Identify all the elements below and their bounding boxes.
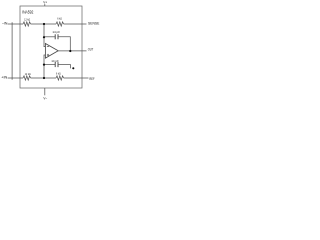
wire R2 to SENSE pin (64, 23, 87, 25)
wire node A to R2 (44, 23, 56, 25)
node D junction dot (43, 77, 45, 79)
svg-text:+IN: +IN (1, 76, 8, 80)
op-amp A1 triangle (45, 44, 58, 59)
power pin V+ lead (44, 4, 46, 6)
node C junction dot (69, 50, 71, 52)
wire C1 to node C on output (58, 37, 70, 51)
svg-text:REF: REF (89, 77, 94, 81)
svg-text:6 kΩ: 6 kΩ (57, 17, 62, 21)
capacitor C2 plate right (57, 62, 59, 67)
capacitor C1 plate left (54, 34, 56, 39)
svg-text:6 kΩ: 6 kΩ (56, 72, 61, 76)
node F junction dot near REF branch (72, 67, 74, 69)
wire R4 to REF pin (64, 77, 89, 79)
wire joining -IN and +IN leads (vertical) (11, 22, 13, 79)
svg-text:–IN: –IN (2, 22, 8, 26)
IC boundary box U1 (20, 6, 82, 88)
svg-text:12 kΩ: 12 kΩ (25, 72, 31, 76)
capacitor C2 plate left (54, 62, 56, 67)
svg-text:14 pF: 14 pF (51, 59, 59, 63)
resistor R1 12 kOhm zigzag (23, 22, 31, 26)
resistor R3 12 kOhm zigzag (23, 76, 31, 80)
svg-text:14 pF: 14 pF (52, 30, 60, 34)
wire node E to capacitor C2 (44, 64, 55, 66)
power pin V- lead (44, 88, 46, 95)
wire +IN lead (8, 77, 23, 79)
wire op-amp output to OUT pin (58, 50, 87, 52)
wire node D up to op-amp non-inverting input (44, 55, 45, 78)
svg-text:12 kΩ: 12 kΩ (24, 18, 30, 22)
op-amp inverting input minus sign (47, 46, 49, 48)
wire C2 down stub (58, 65, 71, 69)
svg-text:INA592: INA592 (22, 10, 34, 15)
svg-text:OUT: OUT (88, 48, 94, 52)
wire node B to capacitor C1 (44, 36, 55, 38)
node E junction dot (43, 64, 45, 66)
op-amp non-inverting input plus sign (47, 54, 49, 56)
wire R1 to node A (31, 23, 44, 25)
svg-text:SENSE: SENSE (88, 21, 99, 25)
wire -IN lead (8, 23, 23, 25)
resistor R4 6 kOhm zigzag (56, 76, 64, 80)
wire R3 to node D (31, 77, 44, 79)
wire node D to R4 (44, 77, 56, 79)
node B junction dot (43, 36, 45, 38)
svg-text:V+: V+ (43, 1, 47, 5)
resistor R2 6 kOhm zigzag (56, 22, 64, 26)
node A junction dot (43, 23, 45, 25)
svg-text:V–: V– (43, 96, 47, 100)
capacitor C1 plate right (57, 34, 59, 39)
wire node A down to op-amp inverting input (44, 24, 45, 47)
